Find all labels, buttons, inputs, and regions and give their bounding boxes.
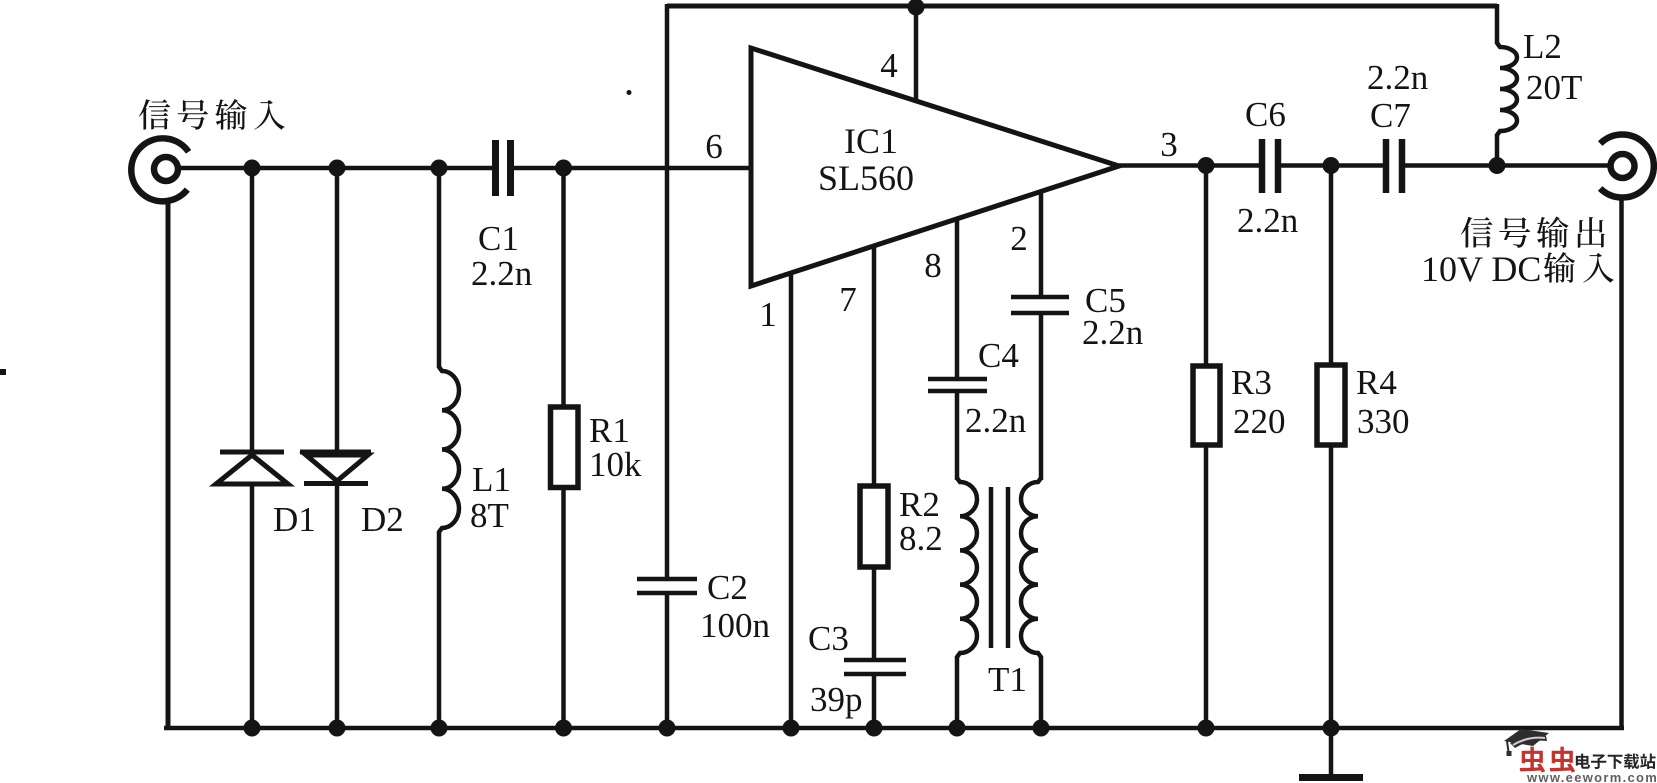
resistor R1 10k	[561, 168, 566, 407]
pin 8 wire	[955, 218, 960, 378]
svg-text:C6: C6	[1245, 95, 1286, 134]
svg-text:10V DC: 10V DC	[1421, 249, 1541, 289]
node input junction 4	[555, 160, 572, 177]
svg-text:R3: R3	[1231, 363, 1272, 402]
wire input signal line	[178, 166, 492, 171]
svg-text:C2: C2	[707, 568, 748, 607]
node input junction 1	[244, 160, 261, 177]
svg-text:C3: C3	[808, 619, 849, 658]
svg-text:330: 330	[1357, 402, 1410, 441]
svg-text:2.2n: 2.2n	[965, 401, 1026, 440]
svg-text:IC1: IC1	[844, 121, 898, 161]
capacitor C4 2.2n	[928, 377, 987, 382]
svg-text:www.eeworm.com: www.eeworm.com	[1526, 770, 1657, 783]
resistor R3 220	[1204, 165, 1209, 366]
node bottom rail junction 8	[949, 720, 966, 737]
svg-text:8T: 8T	[470, 496, 509, 535]
resistor R4 330	[1329, 165, 1334, 365]
wire bottom ground rail	[164, 726, 1624, 731]
watermark 电子下载站 text	[1576, 754, 1590, 769]
capacitor C7 2.2n	[1383, 139, 1390, 193]
svg-text:8: 8	[924, 246, 942, 285]
wire left column from input connector to bottom rail	[166, 199, 171, 730]
svg-text:2.2n: 2.2n	[1367, 58, 1428, 97]
svg-text:SL560: SL560	[818, 158, 914, 198]
capacitor C5 2.2n	[1011, 295, 1069, 300]
inductor L2 20T	[1495, 4, 1500, 44]
node pin4 junction on top rail	[908, 0, 925, 16]
svg-text:3: 3	[1160, 125, 1178, 164]
node bottom rail junction 4	[555, 720, 572, 737]
wire input line to IC pin 6	[514, 166, 753, 171]
node bottom rail junction 6	[783, 720, 800, 737]
capacitor C3 39p	[844, 658, 906, 663]
inductor L1 8T	[437, 168, 442, 368]
svg-text:4: 4	[880, 46, 898, 85]
svg-text:T1: T1	[988, 660, 1027, 699]
wire output line C7 to output connector	[1405, 163, 1608, 168]
svg-text:8.2: 8.2	[899, 519, 943, 558]
node bottom rail junction 11	[1323, 720, 1340, 737]
node bottom rail junction 9	[1033, 720, 1050, 737]
capacitor C6 2.2n	[1259, 139, 1266, 193]
ground symbol	[1329, 728, 1334, 776]
pin 1 wire	[789, 272, 794, 728]
wire output line pin3 to C6	[1119, 163, 1259, 168]
svg-text:2.2n: 2.2n	[1237, 201, 1298, 240]
capacitor C1 2.2n	[492, 140, 499, 196]
op-amp IC1 SL560 triangle	[751, 48, 1119, 286]
node input junction 2	[329, 160, 346, 177]
wire top supply rail	[667, 4, 1497, 9]
label 信号输出 (signal output)	[1461, 217, 1493, 248]
node bottom rail junction 3	[431, 720, 448, 737]
svg-text:100n: 100n	[700, 606, 770, 645]
output RCA connector J2	[1600, 135, 1654, 198]
svg-text:20T: 20T	[1526, 68, 1582, 107]
svg-text:220: 220	[1233, 402, 1286, 441]
node output junction R3	[1198, 157, 1215, 174]
resistor R2 8.2	[860, 486, 888, 567]
pin 7 wire	[872, 245, 877, 486]
node output junction R4	[1323, 157, 1340, 174]
input RCA connector J1	[131, 138, 188, 201]
watermark 虫虫 logo text	[1520, 747, 1545, 773]
wire output line C6 to C7	[1281, 163, 1383, 168]
capacitor C2 100n	[665, 4, 670, 577]
pin 2 wire	[1039, 190, 1044, 296]
transformer T1 secondary winding	[1021, 478, 1041, 657]
node bottom rail junction 1	[244, 720, 261, 737]
node bottom rail junction 7	[866, 720, 883, 737]
svg-text:D1: D1	[273, 500, 316, 539]
svg-text:R4: R4	[1356, 363, 1397, 402]
node bottom rail junction 10	[1198, 720, 1215, 737]
node output junction L2	[1489, 157, 1506, 174]
svg-text:2: 2	[1010, 219, 1028, 258]
node bottom rail junction 5	[659, 720, 676, 737]
svg-text:39p: 39p	[810, 680, 863, 719]
svg-text:2.2n: 2.2n	[471, 254, 532, 293]
svg-text:C7: C7	[1370, 96, 1411, 135]
svg-text:D2: D2	[361, 500, 404, 539]
svg-text:C4: C4	[978, 336, 1019, 375]
svg-text:C1: C1	[478, 219, 519, 258]
svg-text:6: 6	[705, 127, 723, 166]
stray speck	[627, 90, 632, 95]
svg-text:L2: L2	[1523, 27, 1562, 66]
svg-text:10k: 10k	[589, 445, 642, 484]
wire right column from output connector to bottom rail	[1619, 196, 1624, 730]
node bottom rail junction 2	[329, 720, 346, 737]
node input junction 3	[431, 160, 448, 177]
svg-text:7: 7	[839, 280, 857, 319]
stray mark left edge	[0, 369, 6, 375]
label 信号输入 (signal input)	[139, 99, 170, 129]
watermark graduation cap icon	[1504, 729, 1549, 746]
transformer T1 primary winding	[957, 478, 977, 657]
diode D2	[335, 168, 340, 453]
pin 4 wire	[914, 6, 919, 103]
svg-text:L1: L1	[472, 460, 511, 499]
transformer T1 core	[989, 487, 994, 648]
diode D1	[250, 168, 255, 452]
svg-text:2.2n: 2.2n	[1082, 313, 1143, 352]
svg-text:1: 1	[759, 295, 777, 334]
